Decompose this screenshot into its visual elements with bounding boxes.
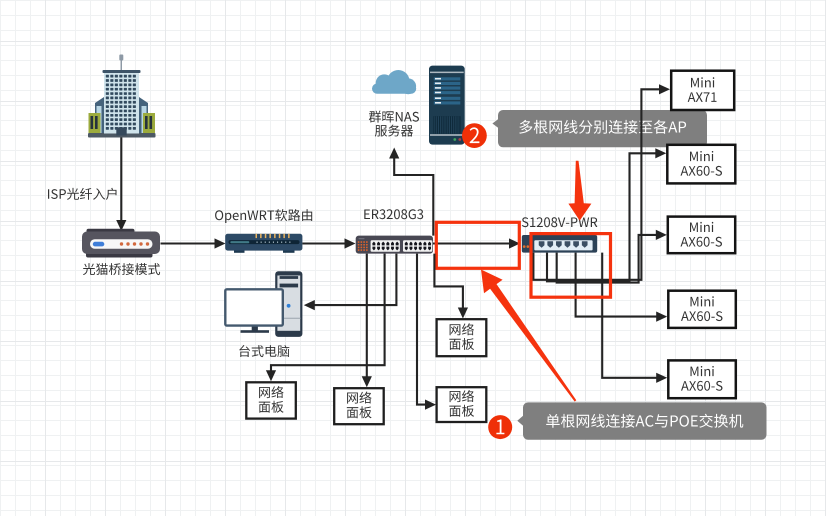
- wall panel B 网络面板: [334, 388, 384, 424]
- red circle number 1: [488, 415, 512, 439]
- wire ER port to desktop PC: [304, 254, 397, 311]
- wire ER port to wall panel A: [266, 254, 385, 382]
- switch S1208V-PWR POE: [522, 235, 597, 253]
- red arrow pointing at red rect 1: [481, 270, 576, 402]
- AP box Mini AX60-S 2: [668, 217, 735, 254]
- red circle number 2: [462, 123, 487, 148]
- label OpenWRT软路由: [215, 209, 312, 223]
- wire POE port3 to AP Mini AX60-S 2: [557, 230, 667, 283]
- wire POE port1 to AP Mini AX71: [533, 84, 670, 280]
- wire router to switch ER3208G3: [302, 238, 355, 248]
- label 光猫桥接模式: [83, 263, 160, 275]
- wall panel A 网络面板: [246, 382, 295, 418]
- wire POE port2 to AP Mini AX60-S 1: [547, 148, 666, 281]
- label 台式电脑: [239, 345, 289, 357]
- AP box Mini AX71: [671, 71, 734, 110]
- label 服务器: [375, 125, 413, 137]
- AP box Mini AX60-S 3: [668, 291, 736, 328]
- red arrow pointing down at POE switch: [568, 161, 591, 221]
- wire building to modem: [116, 138, 126, 232]
- callout label 多根网线分别连接至各AP: [492, 110, 707, 147]
- red highlight rect 1: [436, 222, 519, 268]
- AP box Mini AX60-S 1: [667, 145, 735, 184]
- cloud internet: [372, 70, 416, 94]
- wire POE port5 to AP Mini AX60-S 4: [602, 253, 667, 383]
- wire ER port to wall panel B: [362, 254, 372, 388]
- wall panel C 网络面板: [437, 387, 487, 422]
- router OpenWRT: [225, 234, 302, 253]
- NAS server tower: [429, 66, 465, 145]
- label ISP光纤入户: [48, 188, 117, 200]
- wire ER3208G3 to NAS: [389, 148, 433, 236]
- wire ER port to wall panel C: [417, 254, 436, 410]
- wire ER3208G3 to POE switch: [433, 238, 520, 248]
- wire ER port to wall panel D: [434, 254, 468, 319]
- red highlight rect 2: [531, 234, 611, 298]
- desktop PC 台式电脑: [225, 272, 301, 336]
- wire modem to router: [161, 238, 226, 248]
- switch ER3208G3: [356, 236, 433, 254]
- AP box Mini AX60-S 4: [668, 360, 736, 398]
- modem 光猫: [82, 229, 160, 258]
- wire POE port4 to AP Mini AX60-S 3: [576, 253, 668, 322]
- label 群晖NAS: [369, 111, 419, 123]
- wall panel D 网络面板: [437, 319, 487, 356]
- label S1208V-PWR: [522, 217, 598, 227]
- building ISP tower: [88, 55, 156, 138]
- label ER3208G3: [364, 209, 423, 219]
- callout label 单根网线连接AC与POE交换机: [517, 402, 766, 439]
